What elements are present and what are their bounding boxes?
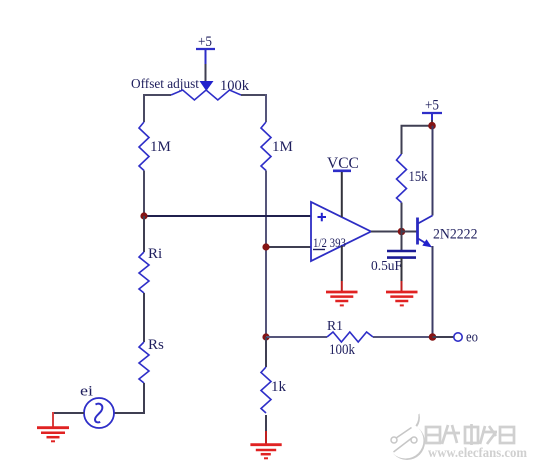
wire Ri to Rs	[143, 293, 145, 342]
resistor R1 100k	[327, 332, 373, 342]
wire left branch down from pot	[143, 94, 145, 122]
op-amp U1 comparator 1/2 393	[311, 202, 371, 261]
wire op-amp output	[371, 231, 402, 233]
svg-text:eo: eo	[466, 330, 478, 346]
wire node to - input	[266, 246, 311, 248]
resistor 1k	[261, 367, 271, 413]
wire source to ground	[53, 412, 84, 414]
wire emitter down to eo node	[432, 246, 434, 337]
wire Rs down and left to source	[114, 383, 144, 413]
potentiometer wiper arrow	[200, 81, 214, 91]
junction node (left rail / + input)	[140, 212, 147, 219]
wire main horizontal to + input	[144, 215, 311, 217]
wire R1 right lead	[373, 336, 433, 338]
ground (below op-amp)	[326, 292, 358, 305]
power +5 (right rail)	[422, 98, 442, 121]
svg-text:R1: R1	[327, 319, 343, 334]
wire to output terminal	[433, 336, 454, 338]
wire node up to 15k	[401, 203, 403, 232]
svg-text:1M: 1M	[272, 139, 293, 155]
svg-text:+5: +5	[425, 98, 439, 114]
wire 1M left to node	[143, 171, 145, 217]
wire node down to capacitor	[401, 232, 403, 252]
junction node (right rail / - input)	[262, 243, 269, 250]
ground stub (op-amp)	[341, 281, 343, 292]
junction node (output/base/15k/cap)	[398, 228, 406, 236]
svg-text:www.elecfans.com: www.elecfans.com	[428, 445, 528, 460]
wire pot right lead	[241, 94, 266, 96]
wire left node down to Ri	[143, 216, 145, 252]
ground stub (1k)	[265, 431, 267, 445]
AC source ei	[84, 398, 114, 428]
resistor 1M (left)	[139, 122, 149, 171]
wire collector rail down	[432, 126, 434, 216]
resistor Ri	[139, 252, 149, 293]
svg-text:VCC: VCC	[327, 155, 359, 172]
svg-text:15k: 15k	[409, 169, 428, 185]
wire from +5 to potentiometer wiper	[205, 64, 207, 81]
svg-text:ei: ei	[80, 384, 93, 400]
ground stub (capacitor)	[401, 281, 403, 292]
ground (left, at ei)	[37, 428, 69, 442]
svg-text:100k: 100k	[329, 342, 355, 358]
wire R1 left lead	[266, 336, 327, 338]
wire right branch down from pot	[265, 94, 267, 122]
junction node (R1 left / 1k)	[262, 333, 269, 340]
svg-text:1k: 1k	[271, 379, 287, 395]
wire VCC pin	[341, 172, 343, 217]
svg-text:0.5uF: 0.5uF	[371, 259, 402, 274]
wire right branch down to R1 node	[265, 171, 267, 338]
ground stub (left)	[52, 412, 54, 427]
resistor Rs	[139, 342, 149, 383]
capacitor C 0.5uF	[387, 251, 416, 258]
svg-text:Rs: Rs	[148, 337, 164, 353]
wire node down to 1k	[265, 337, 267, 367]
wire +5 to node	[431, 120, 433, 126]
svg-text:Ri: Ri	[148, 246, 162, 262]
wire 15k top to +5 node	[402, 126, 433, 154]
ground (below 1k)	[250, 445, 281, 459]
wire pot left lead	[144, 94, 171, 96]
wire capacitor to ground	[401, 258, 403, 281]
svg-text:1M: 1M	[150, 139, 171, 155]
potentiometer R 100k body	[171, 90, 241, 100]
svg-text:+5: +5	[198, 34, 212, 50]
power +5 (top left rail)	[196, 34, 215, 64]
wire 1k to ground	[265, 415, 267, 431]
resistor 15k	[397, 154, 407, 203]
ground (below capacitor)	[386, 292, 418, 305]
junction node (emitter / R1 / eo)	[429, 333, 437, 341]
svg-text:2N2222: 2N2222	[433, 227, 478, 243]
wire ground pin of op-amp	[341, 246, 343, 281]
junction node (+5 / collector)	[428, 122, 436, 130]
terminal eo	[454, 333, 462, 341]
resistor 1M (right)	[261, 122, 271, 171]
power VCC	[327, 155, 359, 172]
svg-text:Offset adjust: Offset adjust	[131, 77, 199, 92]
transistor Q1 2N2222	[418, 216, 433, 248]
wire node to base	[402, 231, 418, 233]
